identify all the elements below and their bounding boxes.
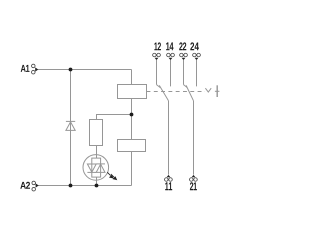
actuator end tick <box>215 90 220 92</box>
mechanical actuator dashed line <box>147 91 206 93</box>
contact arm 2 <box>186 85 193 100</box>
LED emission arrows <box>107 172 116 179</box>
label 11 <box>165 182 172 190</box>
wire 12 NC <box>156 60 158 85</box>
LED indicator lamp circle <box>83 155 109 181</box>
wire 24 NO <box>196 60 198 87</box>
label 22 <box>179 42 186 50</box>
wire lower box to A2 <box>131 152 133 186</box>
contact arm 1 <box>159 85 168 100</box>
wire 21 common <box>193 101 195 175</box>
junction LED-A2 <box>95 184 99 188</box>
wire 22 NC <box>183 60 185 85</box>
NC contact barb 2 <box>184 85 188 88</box>
wire resistor to LED <box>96 146 98 159</box>
relay coil K1 <box>118 85 147 99</box>
terminal 21 <box>190 175 198 181</box>
LED right diode (up) <box>96 164 105 172</box>
terminal 11 <box>165 175 173 181</box>
wire A2 horizontal <box>38 185 132 187</box>
series element box <box>118 140 146 152</box>
wire 11 common <box>168 101 170 175</box>
label 21 <box>190 182 197 190</box>
LED left diode (down) <box>87 164 96 172</box>
terminal A1 <box>32 64 39 74</box>
wire A1 drop to coil <box>131 70 133 85</box>
junction diode-A2 <box>69 184 73 188</box>
wire freewheel diode branch <box>70 70 72 186</box>
wire branch to resistor <box>97 115 132 120</box>
label A1 <box>21 65 30 72</box>
junction A1-diode <box>69 68 73 72</box>
freewheel diode V1 <box>66 121 75 130</box>
label 14 <box>166 42 173 50</box>
NC contact barb 1 <box>157 85 161 88</box>
wire 14 NO <box>170 60 172 87</box>
terminal 22 <box>180 53 188 60</box>
terminal A2 <box>32 181 39 191</box>
label 24 <box>190 42 199 50</box>
junction coil-resistor branch <box>130 113 134 117</box>
LED internal wiring loop <box>87 155 105 186</box>
terminal 12 <box>153 53 161 60</box>
terminal 24 <box>193 53 201 60</box>
label 12 <box>154 42 161 50</box>
actuator end bar <box>216 85 218 97</box>
label A2 <box>20 182 30 189</box>
wire coil to lower box <box>131 99 133 140</box>
resistor R1 <box>90 120 103 146</box>
terminal 14 <box>167 53 175 60</box>
actuator chevron <box>205 88 211 92</box>
wire A1 horizontal <box>38 69 132 71</box>
